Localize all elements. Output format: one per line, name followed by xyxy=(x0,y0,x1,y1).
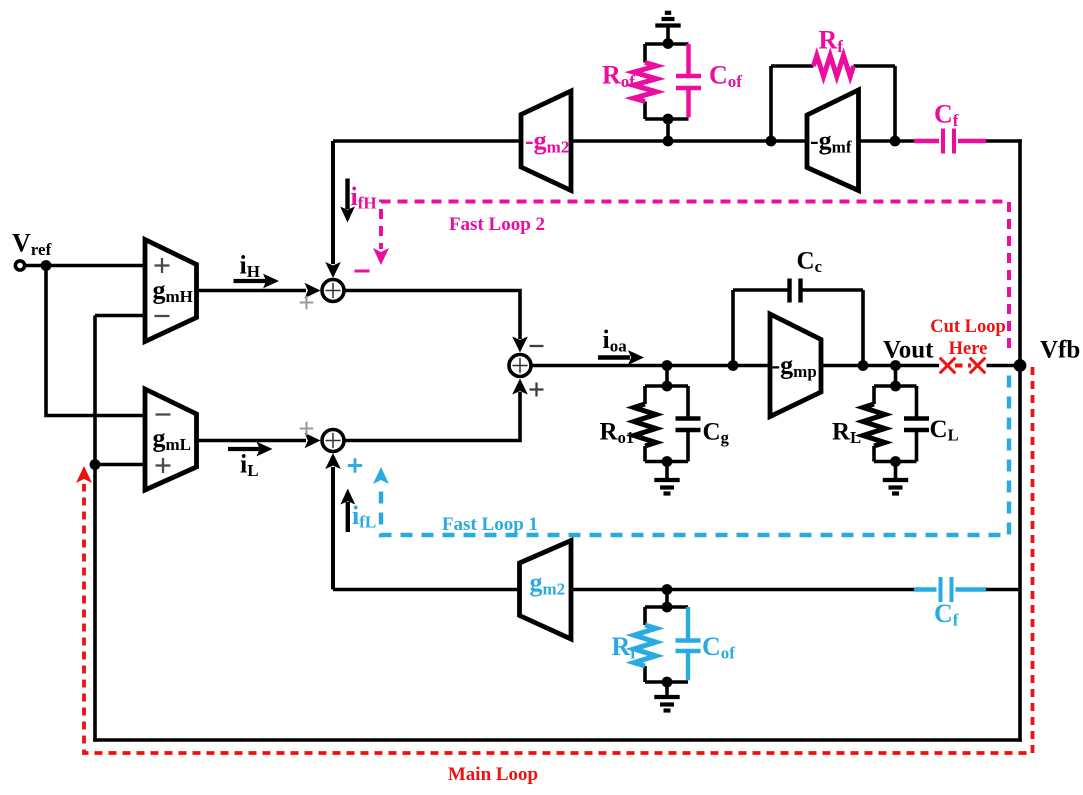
svg-text:Cg: Cg xyxy=(703,419,730,448)
summing node S1 xyxy=(322,280,344,302)
capacitor CL xyxy=(904,419,929,431)
wire: S1 to S3 xyxy=(344,291,528,353)
current arrow ifH xyxy=(340,179,355,223)
node: Cc right xyxy=(858,360,869,371)
wire: Rf box left/right verticals and top xyxy=(771,66,895,141)
op-amp gmH xyxy=(145,240,197,342)
wire: -gm2 input to -gmf output xyxy=(571,139,807,143)
op-amp -gmp xyxy=(770,314,821,417)
sign + (S1 left input) xyxy=(300,296,314,310)
wire: gm2 output up into summing node S2 xyxy=(325,453,341,590)
node: top of Rof/Cof box xyxy=(663,38,674,49)
sign + (S3 bottom input) xyxy=(530,383,544,397)
svg-text:Ro1: Ro1 xyxy=(600,419,635,448)
wire: bottom Cf to Vfb rail xyxy=(986,588,1020,592)
node: feedback to gmL + input xyxy=(90,459,145,470)
node: Vout tap xyxy=(890,360,901,386)
resistor Ro1 xyxy=(634,404,656,446)
wire: Ro1/Cg box xyxy=(645,386,688,462)
pin - (gmH) xyxy=(155,315,170,317)
current arrow iH xyxy=(234,274,280,289)
svg-text:Cof: Cof xyxy=(702,632,735,663)
current arrow ifL xyxy=(340,489,355,533)
wire: Cf to right vertical xyxy=(986,139,1022,143)
node: top of RL/CL box xyxy=(890,381,901,392)
svg-text:Rof: Rof xyxy=(602,61,635,92)
svg-text:Cof: Cof xyxy=(709,61,742,92)
op-amp gmL xyxy=(145,389,197,490)
sign - (magenta, fast loop 2 input) xyxy=(355,270,370,273)
svg-text:Rf: Rf xyxy=(819,26,844,57)
wire: Rof/Cof box outline xyxy=(645,44,689,119)
svg-text:Vref: Vref xyxy=(12,229,52,260)
wire: gmH output to summing node S1 xyxy=(197,283,321,299)
cut loop red dashes xyxy=(955,364,971,368)
op-amp gm2 (bottom transconductor) xyxy=(520,541,572,640)
current arrow iL xyxy=(228,442,273,457)
resistor Rf (top, magenta) xyxy=(814,56,854,77)
wire: bottom feedback rail xyxy=(93,738,1022,742)
svg-text:Vfb: Vfb xyxy=(1040,337,1080,364)
sign - (S3 top input) xyxy=(530,345,544,347)
ground (under Ro1/Cg) xyxy=(654,462,679,494)
svg-text:RL: RL xyxy=(832,419,861,448)
svg-text:Cc: Cc xyxy=(797,248,822,277)
wire: bottom Rf/Cof box xyxy=(645,607,688,682)
node: bottom of RL/CL box xyxy=(890,456,901,467)
resistor RL xyxy=(863,404,885,446)
svg-text:Cf: Cf xyxy=(934,599,959,630)
wire: after cut to Vfb xyxy=(987,364,1021,368)
node: bottom of Ro1/Cg box xyxy=(662,456,673,467)
wire: S2 to S3 xyxy=(344,379,528,441)
svg-text:Fast Loop 2: Fast Loop 2 xyxy=(449,214,545,235)
svg-text:iL: iL xyxy=(240,450,259,481)
ground (top, inverted) xyxy=(655,13,680,44)
terminal Vref (open circle) xyxy=(15,261,24,270)
wire: S3 output to Vout (main path) xyxy=(532,364,940,368)
sign + (blue, fast loop 1 input) xyxy=(348,458,362,472)
current arrow ioa xyxy=(598,350,644,365)
svg-text:Cf: Cf xyxy=(934,100,959,131)
summing node S3 xyxy=(509,355,531,377)
svg-text:CL: CL xyxy=(930,416,959,445)
capacitor Cf (bottom, blue) xyxy=(914,577,986,602)
wire: feedback vertical rail x=95 xyxy=(93,316,97,742)
pin + (gmH) xyxy=(155,258,170,273)
fast loop 2 (magenta dashed) xyxy=(373,202,1009,349)
ground (under RL/CL) xyxy=(883,462,908,494)
capacitor Cf (top, magenta) xyxy=(914,129,986,154)
svg-text:Here: Here xyxy=(949,339,988,359)
node: Ro1/Cg tap xyxy=(662,360,673,386)
capacitor Cc xyxy=(790,279,801,303)
wire: RL/CL box xyxy=(874,386,917,462)
node B (-gmf input / Cf) xyxy=(890,136,901,147)
node: bottom of Rf/Cof box xyxy=(662,677,673,688)
node: top of Ro1/Cg box xyxy=(662,381,673,392)
node: bottom of Rof/Cof box xyxy=(663,114,674,141)
svg-text:iH: iH xyxy=(240,251,260,282)
node Vfb xyxy=(1014,359,1027,372)
op-amp -gm2 (top transconductor) xyxy=(521,91,571,191)
node: Cc left xyxy=(728,360,739,371)
wire: feedback rail to gmH - input xyxy=(95,314,145,318)
svg-text:Cut Loop: Cut Loop xyxy=(930,317,1006,337)
wire: right vertical rail (Cf corner down to bottom loop) xyxy=(1018,139,1022,742)
pin - (gmL) xyxy=(156,413,171,415)
wire: gm2 input to Cf (bottom) xyxy=(571,588,914,592)
wire: top path from -gm2 output to corner above summing node xyxy=(333,139,521,143)
main loop (red dashed) xyxy=(76,367,1033,753)
capacitor Cof xyxy=(676,44,701,117)
node: Rof/Cof tap on top path xyxy=(663,136,674,147)
wire: gmL output to summing node S2 xyxy=(197,433,321,449)
wire: Cc box xyxy=(733,290,863,366)
svg-text:Main Loop: Main Loop xyxy=(448,764,538,785)
wire: top path down into summing node S1 xyxy=(325,141,341,278)
node A (-gmf output) xyxy=(766,136,777,147)
sign + (S2 left input) xyxy=(300,422,314,436)
cut loop X mark 2 xyxy=(970,358,986,374)
svg-text:Fast Loop 1: Fast Loop 1 xyxy=(442,514,538,535)
op-amp -gmf (fast feedback transconductor) xyxy=(807,90,859,191)
fast loop 1 (blue dashed) xyxy=(373,376,1009,536)
wire: Vref down to gmL - input xyxy=(46,266,145,416)
svg-text:ifH: ifH xyxy=(351,182,377,213)
node: Vref branch xyxy=(41,260,52,271)
svg-text:ifL: ifL xyxy=(352,501,376,532)
cut loop X mark 1 xyxy=(940,358,956,374)
svg-text:Vout: Vout xyxy=(883,337,934,364)
capacitor Cg xyxy=(676,419,701,431)
pin + (gmL) xyxy=(156,458,171,473)
summing node S2 xyxy=(322,430,344,452)
resistor Rof xyxy=(634,63,657,102)
resistor Rf (bottom, blue) xyxy=(634,625,656,666)
wire: Vref to gmH + input xyxy=(25,264,145,268)
svg-text:ioa: ioa xyxy=(603,325,628,356)
ground (under bottom Rf/Cof) xyxy=(654,682,679,711)
node: top of bottom Rf/Cof box xyxy=(662,602,673,613)
node: bottom Rf/Cof tap xyxy=(662,584,673,607)
wire: -gmf to Cf xyxy=(859,139,915,143)
capacitor Cof (bottom, blue) xyxy=(676,607,701,680)
wire: S2 down-corner to gm2 output xyxy=(333,588,520,592)
